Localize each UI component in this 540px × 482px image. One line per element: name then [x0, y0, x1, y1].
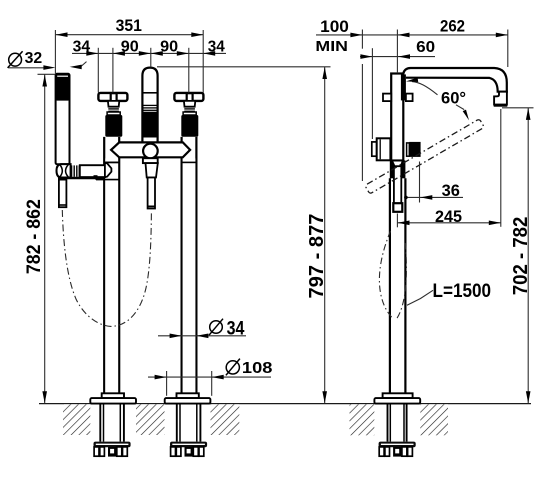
escutcheon plate (right riser) [165, 398, 211, 404]
leader L=1500 [407, 290, 433, 305]
svg-text:60°: 60° [441, 90, 466, 108]
holder cone into riser [105, 163, 112, 177]
locknut plate (side view) [379, 442, 416, 448]
arrow 702 bottom [526, 391, 531, 403]
below-floor shank (side view) [388, 404, 407, 442]
hose (hand shower flexible hose, left view) [62, 210, 151, 326]
extension line spout end [507, 30, 509, 68]
floor hatch blocks (left view) [63, 404, 90, 435]
svg-text:702 - 782: 702 - 782 [510, 217, 532, 296]
handle (side view) disc [377, 138, 391, 160]
leader diameter 32 [9, 67, 44, 69]
column pipe below body (side view) [390, 178, 406, 398]
extension line aerator center [500, 109, 502, 227]
riser collar lines below manifold [104, 161, 119, 163]
below-floor shank (right riser) [177, 404, 201, 442]
extension line left handle edge [97, 48, 99, 93]
extension line shower left edge [54, 30, 56, 73]
svg-text:90: 90 [121, 39, 139, 56]
arrow 60 left [360, 54, 372, 59]
arrow 90b right [177, 51, 189, 56]
svg-text:351: 351 [116, 17, 142, 35]
hand shower holder (side view) block [409, 142, 420, 157]
dot 36 [404, 196, 408, 200]
arrow 36 [420, 195, 432, 200]
diameter symbol 108 [226, 359, 240, 376]
hand shower outlet tube [59, 180, 67, 208]
diverter taper [146, 163, 158, 177]
svg-text:34: 34 [208, 39, 225, 56]
right riser column [182, 137, 197, 398]
arrow 351 left [56, 32, 68, 37]
dimension 797-877 line [324, 67, 326, 403]
handle (side view) arm [372, 142, 377, 156]
dimension 782-862 line [44, 75, 46, 404]
diverter flange [143, 158, 158, 163]
svg-text:90: 90 [160, 39, 178, 56]
arrow 702 top [526, 108, 531, 120]
manifold cross bar [111, 142, 190, 157]
arrow 782 top [42, 75, 47, 87]
arrow 60deg leader2 [463, 110, 469, 121]
arrow d108 left [155, 375, 167, 380]
faucet body column (side view) [391, 74, 403, 161]
arrow 351 right [191, 32, 203, 37]
arrow 797 top [322, 67, 327, 79]
arrow 262 right [496, 33, 508, 38]
extension line right handle edge [202, 30, 204, 93]
extension line right handle center [188, 48, 190, 93]
diameter symbol 32 [8, 51, 23, 68]
dimension 60 line [360, 56, 435, 58]
threaded tabs (left riser) [94, 447, 127, 456]
dimension 351 line [56, 34, 204, 36]
arrow d34 right [196, 334, 208, 339]
arrow 245 right [489, 221, 501, 226]
right cross handle [174, 93, 203, 137]
dimension 36 line [406, 196, 463, 198]
hand shower handle [56, 74, 70, 164]
hand shower head (black) [56, 74, 70, 101]
svg-text:245: 245 [435, 207, 462, 226]
dimension 245 line [398, 222, 501, 224]
threaded tabs (right riser) [171, 447, 204, 456]
svg-text:36: 36 [442, 181, 460, 200]
leader 60deg to tilted shower [456, 105, 464, 110]
hose loop behind column (side view, dashed) [379, 231, 392, 318]
svg-text:34: 34 [73, 39, 91, 56]
arrow 90a left [113, 51, 125, 56]
extension line left handle center [112, 48, 114, 93]
arrow 262 left [398, 33, 410, 38]
extension lines escutcheon [166, 371, 168, 396]
left riser column [104, 137, 119, 398]
swivel tab left [383, 94, 391, 102]
escutcheon boss (side view) [383, 393, 413, 398]
svg-text:782 - 862: 782 - 862 [23, 199, 45, 274]
hand shower holder (side view) collar [407, 143, 410, 156]
arrow 90a right [139, 51, 151, 56]
floor hatch blocks (right view) [350, 404, 375, 435]
dimension 702-782 line [527, 108, 529, 403]
arrow 60deg leader1 [406, 78, 418, 83]
dimension 100/262 line [316, 34, 508, 36]
column lower sleeve black sides [390, 160, 406, 178]
escutcheon plate (left riser) [90, 398, 136, 404]
dimension diameter34 line [158, 335, 246, 337]
arrow 60 right [398, 54, 410, 59]
svg-text:L=1500: L=1500 [433, 281, 492, 302]
arrow 90b left [151, 51, 163, 56]
arrow 245 left [398, 221, 410, 226]
svg-text:34: 34 [227, 318, 245, 339]
svg-text:100: 100 [320, 18, 349, 36]
aerator end piece [494, 92, 507, 105]
extension line holder edge [419, 162, 421, 203]
escutcheon plate (side view) [374, 398, 420, 404]
dimension chain 34/90/90/34 line [72, 52, 226, 54]
extension line 60 [371, 48, 373, 139]
escutcheon boss (right riser) [177, 393, 199, 398]
svg-text:32: 32 [25, 50, 43, 67]
diverter capsule (center column) [142, 68, 157, 146]
threaded tabs (side view) [379, 447, 412, 456]
arrow 34 right seg [203, 51, 215, 56]
arrow d32 left [43, 65, 55, 70]
escutcheon boss (left riser) [102, 393, 124, 398]
arrow d108 right [212, 375, 224, 380]
diverter ball [143, 144, 158, 159]
arrow 34 left seg [86, 51, 98, 56]
lower cone [392, 161, 403, 179]
left cross handle [98, 93, 127, 137]
inner outlet tube (side view) [394, 166, 401, 205]
floor line [39, 403, 531, 405]
diverter outlet tube [148, 178, 155, 209]
locknut plate (left riser) [94, 442, 131, 448]
svg-text:MIN: MIN [315, 39, 348, 55]
holder attachment block on riser [95, 177, 104, 180]
hand shower holder cap (ball clamp) [57, 164, 71, 177]
locknut plate (right riser) [170, 442, 207, 448]
svg-text:108: 108 [242, 360, 273, 377]
swivel tab right [406, 94, 413, 102]
hand shower in 60-degree position (phantom) [365, 119, 484, 194]
spout joint black band [401, 74, 406, 100]
svg-text:60: 60 [416, 39, 435, 56]
leader 60deg to spout joint [412, 82, 438, 95]
extension line column center [396, 30, 398, 74]
tube end cap [393, 203, 402, 212]
holder barrel [80, 165, 105, 177]
svg-text:262: 262 [440, 18, 465, 36]
dimension diameter108 line [148, 376, 271, 378]
extension line capsule center [150, 48, 152, 67]
arrow d34 left [170, 334, 182, 339]
holder rings [72, 165, 80, 176]
arrow 797 bottom [322, 391, 327, 403]
arrow 100 right [350, 33, 362, 38]
extension line wall [361, 30, 363, 49]
spout tube [403, 68, 507, 92]
diameter symbol 34 [209, 319, 223, 336]
arrow d32 right [70, 65, 82, 70]
svg-text:797 - 877: 797 - 877 [305, 214, 328, 299]
arrow 782 bottom [42, 391, 47, 403]
below-floor shank (left riser) [100, 404, 124, 442]
